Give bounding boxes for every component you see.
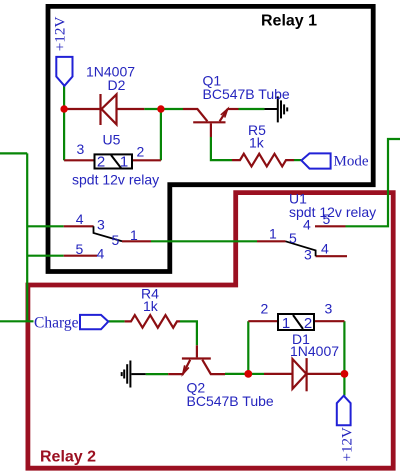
transistor Q2 [182,357,211,359]
svg-text:spdt 12v relay: spdt 12v relay [72,172,159,188]
wire left net vertical [26,153,28,321]
svg-text:Relay 1: Relay 1 [261,12,317,29]
svg-text:5: 5 [76,241,84,257]
wire left net to canvas edge bottom [0,320,34,322]
svg-text:4: 4 [76,211,84,227]
wire Q2 collector to junction C [225,373,248,375]
svg-text:3: 3 [304,247,312,263]
wire junction B down to U5 coil pin 2 [160,109,162,160]
svg-text:BC547B Tube: BC547B Tube [187,393,274,409]
Relay 2 bounding box [28,193,393,469]
transistor Q1 [193,121,225,123]
svg-text:1: 1 [120,154,128,171]
wire junction D up to U1 coil pin 3 [343,321,345,374]
Relay 1 bounding box [48,6,373,271]
svg-text:3: 3 [97,216,105,232]
svg-text:1k: 1k [143,298,159,314]
U5 switch contact 5 stub [64,255,97,257]
wire ground to Q2 emitter [146,373,169,375]
svg-text:5: 5 [323,211,331,227]
U5 switch contact 4 stub [64,225,94,227]
junction D [341,370,349,378]
svg-text:4: 4 [303,217,311,233]
wire Charge port to R4 [108,320,124,322]
port +12V bottom [337,396,351,426]
relay U5 coil box [95,154,133,171]
wire R4 to Q2 base [180,321,197,345]
svg-text:4: 4 [321,241,329,257]
wire to U5 contact 4 [27,225,64,227]
svg-text:BC547B Tube: BC547B Tube [203,86,290,102]
svg-text:Charge: Charge [34,315,79,332]
svg-text:5: 5 [112,232,120,248]
port Mode [301,153,330,168]
svg-text:D2: D2 [108,77,126,93]
port +12V top [56,57,72,86]
U1 switch contact 3 stub [316,255,347,257]
svg-text:2: 2 [304,315,312,332]
wire junction C up to U1 coil pin 2 [247,321,249,374]
port Charge [80,315,108,329]
wire R5 to Mode port [294,159,301,161]
svg-text:Relay 2: Relay 2 [40,449,96,466]
svg-text:+12V: +12V [340,427,356,461]
wire junction C to D1 anode [248,373,264,375]
svg-text:U5: U5 [103,132,121,148]
wire Q1 base down [211,137,232,160]
U1 switch blade [286,241,316,256]
svg-text:+12V: +12V [52,17,69,52]
svg-text:3: 3 [77,141,85,157]
diode D1 [264,373,293,375]
svg-text:1: 1 [130,227,138,243]
wire to U5 contact 5 [27,255,64,257]
ground for Q2 emitter [122,361,146,388]
svg-text:1N4007: 1N4007 [290,343,339,359]
U5 switch common stub [122,240,151,242]
wire junction A down to U5 coil pin 3 [63,109,65,160]
svg-text:2: 2 [97,154,105,171]
svg-text:5: 5 [289,230,297,246]
ground for Q1 emitter [264,96,287,122]
svg-text:2: 2 [261,301,269,317]
wire U1 contact to right riser [346,139,400,226]
wire left net horizontal top [0,152,27,154]
junction A [60,105,67,112]
svg-text:3: 3 [325,301,333,317]
wire +12V port to junction A [63,86,65,109]
svg-text:2: 2 [137,144,145,160]
wire common U5 to common U1 [151,240,257,242]
svg-text:1: 1 [282,315,290,332]
relay U1 coil pin 2 stub [248,320,278,322]
U5 switch blade [94,226,123,241]
svg-text:1: 1 [269,226,277,242]
U1 switch common stub [257,240,286,242]
diode D2 [64,108,100,110]
resistor R5 [232,154,294,167]
relay U1 coil pin 3 stub [314,320,344,322]
wire junction D down to +12V port [343,374,345,396]
U1 switch contact 5 stub [315,225,346,227]
wire D1 cathode to junction D [340,373,344,375]
wire Q1 emitter to ground [239,108,265,110]
relay U5 coil pin 3 stub [64,159,94,161]
svg-text:1k: 1k [249,135,265,151]
junction C [244,370,252,378]
resistor R4 [125,315,180,328]
svg-text:Mode: Mode [334,154,369,170]
svg-text:4: 4 [97,246,105,262]
junction B [157,105,164,112]
relay U5 coil pin 2 stub [132,159,161,161]
wire D2 anode to junction B [144,108,183,110]
relay U1 coil box [278,314,314,332]
